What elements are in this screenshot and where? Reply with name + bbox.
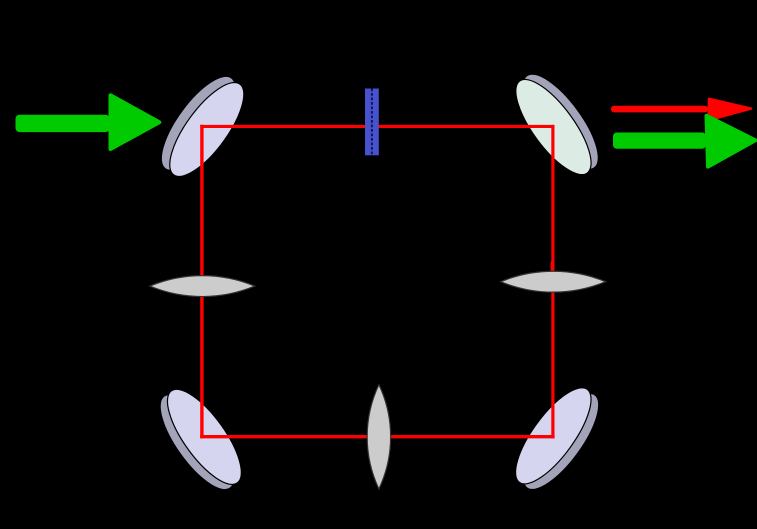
wire: intracavity beam, top segment [202,125,553,128]
lens L1 (left arm lens) [150,276,255,297]
mirror M4 (bottom-right cavity mirror) [503,377,612,500]
output signal beam arrow (red, thin) [611,99,751,120]
mirror M3 (bottom-left cavity mirror) [147,379,254,500]
wire: intracavity beam, right segment [551,126,554,436]
wire: intracavity beam, bottom segment [202,435,553,438]
wire: short doubled beam segment above right lens [551,262,553,273]
wire: intracavity beam, left segment [200,126,203,436]
mirror M2 (top-right output coupler) [503,64,611,186]
lens L3 (bottom arm lens) [367,385,390,489]
output pump beam arrow (green, thick) [613,116,755,167]
mirror M1 (top-left cavity mirror) [149,66,257,187]
lens L2 (right arm lens) [501,271,606,292]
input pump beam arrow (green) [16,95,160,149]
nonlinear crystal (blue, with dashed center line) [365,89,379,156]
